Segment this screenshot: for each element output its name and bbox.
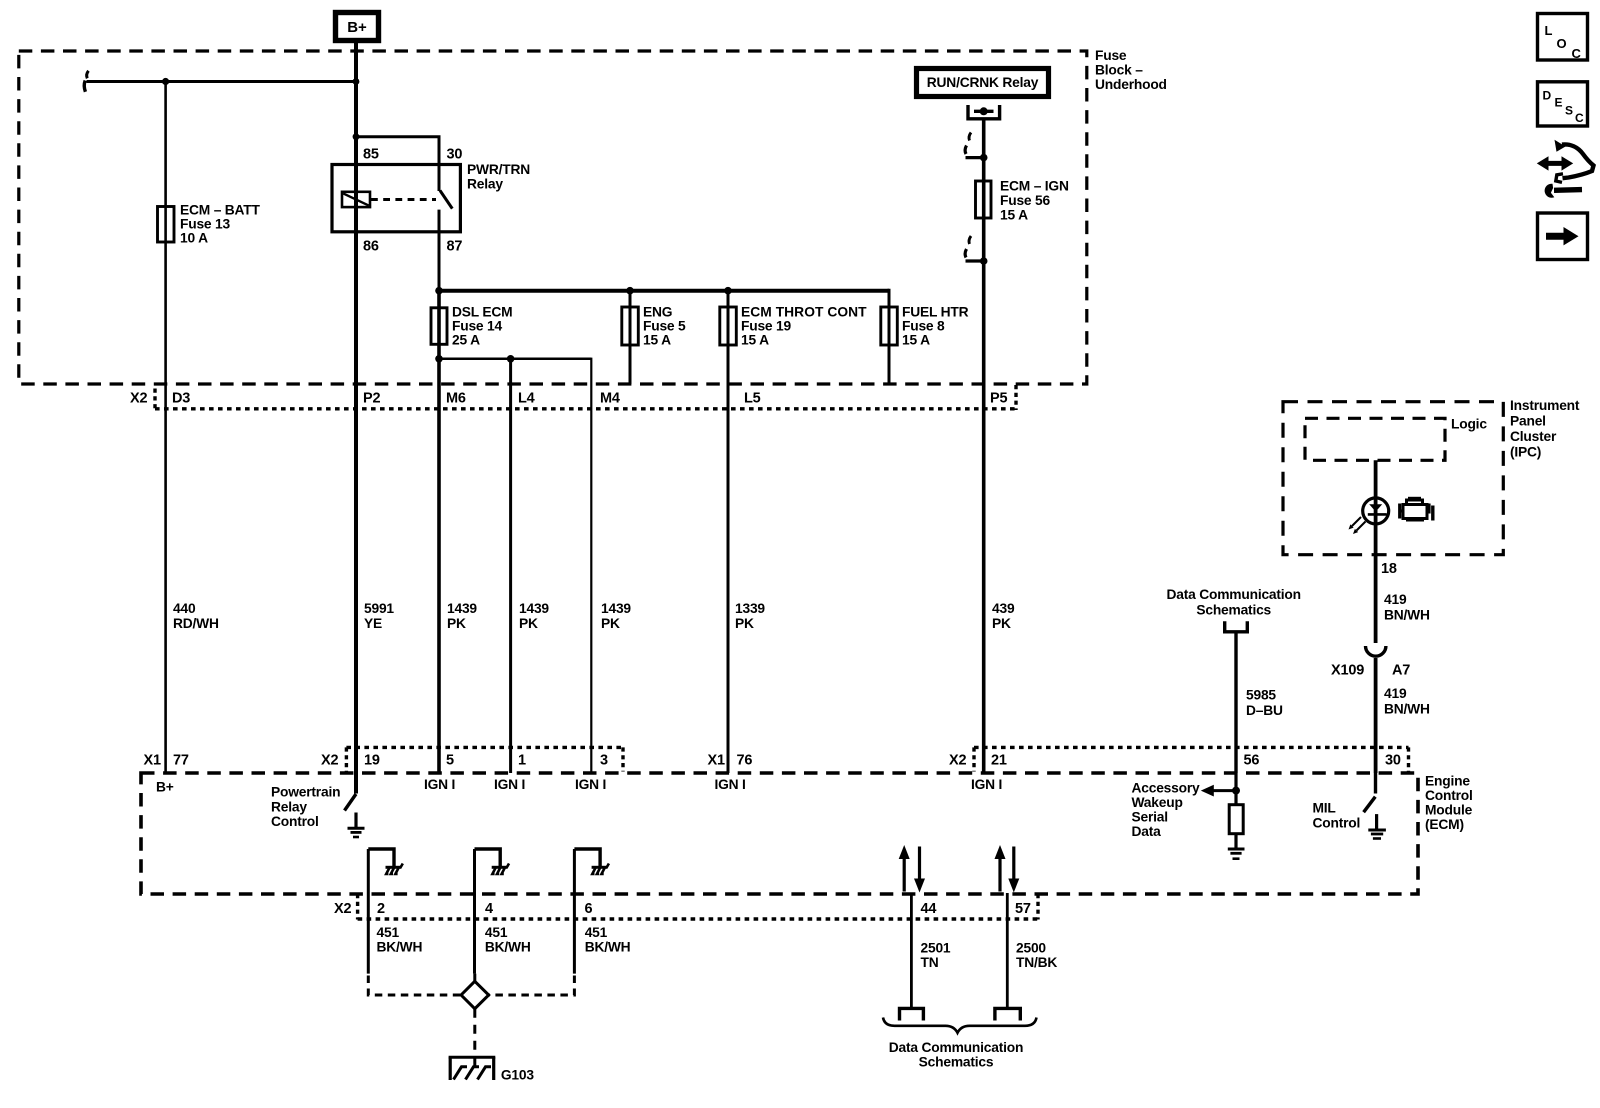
svg-text:Fuse: Fuse xyxy=(1095,48,1127,63)
ground (powertrain control) xyxy=(354,813,357,828)
wire: branch to pins 1 and 3 xyxy=(439,358,591,361)
ECM bottom X2 band (2 4 6 44 57) xyxy=(356,894,359,920)
node: bus junction at 439 xyxy=(435,287,443,295)
svg-text:TN: TN xyxy=(921,955,939,970)
wrench-arrows icon xyxy=(1537,140,1594,198)
svg-text:Schematics: Schematics xyxy=(1196,602,1271,617)
inline connector X109 xyxy=(1366,646,1386,656)
fuse ECM-BATT Fuse 13 xyxy=(158,207,175,243)
wire: pin 87 down to bus xyxy=(438,210,441,291)
node: junction at 1439 pin1 xyxy=(507,355,515,363)
wire 5985 D-BU xyxy=(1234,632,1237,773)
svg-text:FUEL HTR: FUEL HTR xyxy=(902,305,969,320)
svg-text:Data Communication: Data Communication xyxy=(889,1040,1023,1055)
svg-text:ECM – BATT: ECM – BATT xyxy=(180,203,261,218)
svg-text:76: 76 xyxy=(737,753,753,769)
svg-text:Engine: Engine xyxy=(1425,774,1470,789)
svg-text:Fuse 13: Fuse 13 xyxy=(180,217,231,232)
svg-text:PK: PK xyxy=(601,616,620,631)
svg-text:Data: Data xyxy=(1132,824,1162,839)
IPC box xyxy=(1283,402,1503,555)
ground (accessory) xyxy=(1228,848,1245,851)
wire 419 below connector xyxy=(1374,658,1378,773)
svg-text:15 A: 15 A xyxy=(741,333,769,348)
svg-text:439: 439 xyxy=(992,601,1015,616)
wire: RUN/CRNK feed / 439 PK xyxy=(982,119,986,773)
wire 2500 TN/BK xyxy=(1006,893,1009,1008)
svg-text:M4: M4 xyxy=(600,391,620,407)
svg-text:85: 85 xyxy=(363,147,379,163)
svg-text:E: E xyxy=(1555,96,1563,110)
svg-text:BK/WH: BK/WH xyxy=(377,940,423,955)
svg-text:BN/WH: BN/WH xyxy=(1384,608,1430,623)
wire: 1439 PK pin3 drop xyxy=(590,358,592,773)
svg-text:MIL: MIL xyxy=(1313,801,1336,816)
svg-text:19: 19 xyxy=(364,753,380,769)
svg-text:BN/WH: BN/WH xyxy=(1384,702,1430,717)
svg-text:Module: Module xyxy=(1425,803,1473,818)
svg-text:4: 4 xyxy=(485,901,493,917)
relay PWR/TRN box xyxy=(332,165,460,232)
svg-text:5985: 5985 xyxy=(1246,688,1276,703)
connector band fuse block bottom: dotted row xyxy=(155,407,1016,410)
inline connector upper xyxy=(980,154,988,162)
svg-text:1439: 1439 xyxy=(447,601,477,616)
wire: DSL ECM fuse drop / 1439 PK pin5 xyxy=(437,291,441,773)
svg-text:77: 77 xyxy=(173,753,189,769)
node: junction pin85/30 xyxy=(353,133,360,140)
band right terminator xyxy=(1014,385,1017,410)
fuse ECM THROT CONT Fuse 19 xyxy=(720,307,737,345)
svg-text:X2: X2 xyxy=(949,753,966,769)
svg-text:5991: 5991 xyxy=(364,601,394,616)
node: junction top feed xyxy=(162,78,169,85)
svg-text:D: D xyxy=(1543,89,1552,103)
svg-text:Cluster: Cluster xyxy=(1510,429,1557,444)
ground G103 xyxy=(449,1057,535,1083)
svg-text:Control: Control xyxy=(1313,815,1361,830)
svg-text:30: 30 xyxy=(447,147,463,163)
ECM X2 band (21 56 30) xyxy=(974,746,1409,749)
svg-text:18: 18 xyxy=(1381,561,1397,577)
svg-text:D3: D3 xyxy=(172,391,190,407)
RUN/CRNK Relay box xyxy=(917,69,1049,97)
fuse holder clip xyxy=(968,105,1000,119)
fuse DSL ECM Fuse 14 xyxy=(431,308,447,345)
svg-text:Underhood: Underhood xyxy=(1095,77,1167,92)
connector stub left end xyxy=(87,71,89,79)
svg-text:Control: Control xyxy=(1425,788,1473,803)
svg-text:X2: X2 xyxy=(130,391,147,407)
svg-text:Block –: Block – xyxy=(1095,63,1143,78)
svg-text:56: 56 xyxy=(1244,753,1260,769)
svg-text:Fuse 14: Fuse 14 xyxy=(452,319,503,334)
wire: ECM-BATT drop / 440 RD/WH xyxy=(164,82,167,774)
brace xyxy=(883,1018,1037,1033)
svg-text:15 A: 15 A xyxy=(902,333,930,348)
ECM box xyxy=(141,773,1418,894)
node: junction below DSL fuse xyxy=(435,355,443,363)
wire: 1439 PK pin1 drop xyxy=(509,359,512,773)
ground (MIL) xyxy=(1375,814,1378,829)
svg-text:Accessory: Accessory xyxy=(1132,781,1201,796)
svg-text:IGN I: IGN I xyxy=(494,777,525,792)
svg-text:30: 30 xyxy=(1385,753,1401,769)
svg-text:1439: 1439 xyxy=(601,601,631,616)
wire: relay pin 30 feed xyxy=(356,137,439,191)
band separator after X2 xyxy=(153,389,156,411)
wire: feed bus xyxy=(437,289,889,293)
svg-text:Powertrain: Powertrain xyxy=(271,785,340,800)
svg-text:A7: A7 xyxy=(1392,663,1410,679)
engine icon xyxy=(1400,498,1433,521)
node: junction at B+ trunk xyxy=(353,78,360,85)
svg-text:10 A: 10 A xyxy=(180,231,208,246)
svg-text:D–BU: D–BU xyxy=(1246,703,1283,718)
svg-text:PK: PK xyxy=(735,616,754,631)
svg-text:6: 6 xyxy=(585,901,593,917)
svg-text:1439: 1439 xyxy=(519,601,549,616)
svg-text:C: C xyxy=(1575,111,1584,125)
powertrain relay control switch xyxy=(345,794,357,811)
svg-text:PK: PK xyxy=(992,616,1011,631)
svg-text:IGN I: IGN I xyxy=(971,777,1002,792)
svg-text:15 A: 15 A xyxy=(643,333,671,348)
svg-text:C: C xyxy=(1572,46,1582,61)
svg-text:P5: P5 xyxy=(990,391,1007,407)
accessory wakeup node xyxy=(1232,787,1240,795)
svg-text:5: 5 xyxy=(446,753,454,769)
svg-text:21: 21 xyxy=(991,753,1007,769)
svg-text:Fuse 56: Fuse 56 xyxy=(1000,193,1051,208)
logic box xyxy=(1305,418,1445,460)
svg-text:RUN/CRNK Relay: RUN/CRNK Relay xyxy=(927,75,1039,90)
svg-text:Schematics: Schematics xyxy=(919,1055,994,1070)
svg-text:L5: L5 xyxy=(744,391,761,407)
svg-text:Data Communication: Data Communication xyxy=(1167,587,1301,602)
svg-text:(IPC): (IPC) xyxy=(1510,445,1541,460)
svg-text:451: 451 xyxy=(585,925,608,940)
serial data arrows at pin 57 xyxy=(995,845,1020,893)
svg-text:L4: L4 xyxy=(518,391,535,407)
svg-text:Instrument: Instrument xyxy=(1510,398,1580,413)
svg-text:ECM THROT CONT: ECM THROT CONT xyxy=(741,305,867,320)
serial data arrows at pin 44 xyxy=(899,845,925,893)
wire 419 inside IPC xyxy=(1374,460,1378,643)
fuse FUEL HTR Fuse 8 xyxy=(881,307,898,345)
fuse ECM-IGN Fuse 56 xyxy=(976,181,992,218)
ECM X2 band (19 5 1 3) xyxy=(346,746,623,749)
svg-text:Wakeup: Wakeup xyxy=(1132,795,1183,810)
svg-text:(ECM): (ECM) xyxy=(1425,817,1464,832)
svg-text:86: 86 xyxy=(363,239,379,255)
svg-text:419: 419 xyxy=(1384,686,1407,701)
svg-text:451: 451 xyxy=(485,925,508,940)
svg-text:DSL ECM: DSL ECM xyxy=(452,305,512,320)
svg-text:15 A: 15 A xyxy=(1000,208,1028,223)
svg-text:B+: B+ xyxy=(347,19,367,36)
svg-text:PWR/TRN: PWR/TRN xyxy=(467,162,530,177)
svg-text:1: 1 xyxy=(518,753,526,769)
svg-text:3: 3 xyxy=(600,753,608,769)
svg-text:440: 440 xyxy=(173,601,196,616)
svg-text:Panel: Panel xyxy=(1510,414,1546,429)
svg-text:2500: 2500 xyxy=(1016,941,1046,956)
svg-text:YE: YE xyxy=(364,616,382,631)
forward arrow icon xyxy=(1538,213,1588,260)
svg-text:G103: G103 xyxy=(501,1068,534,1083)
wire: ECM THROT CONT fuse drop / 1339 PK xyxy=(727,291,730,773)
DESC icon xyxy=(1538,82,1588,126)
svg-text:S: S xyxy=(1565,104,1573,118)
LOC icon xyxy=(1538,14,1588,62)
svg-text:BK/WH: BK/WH xyxy=(485,940,531,955)
splice diamond xyxy=(368,976,460,996)
off-page terminator 2501 xyxy=(900,1008,924,1020)
svg-text:2501: 2501 xyxy=(921,941,951,956)
node: bus junction at THROT xyxy=(724,287,732,295)
svg-text:25 A: 25 A xyxy=(452,333,480,348)
B+ power symbol xyxy=(336,13,379,41)
svg-text:Fuse 5: Fuse 5 xyxy=(643,319,686,334)
svg-text:BK/WH: BK/WH xyxy=(585,940,631,955)
svg-text:IGN I: IGN I xyxy=(715,777,746,792)
svg-text:X109: X109 xyxy=(1331,663,1364,679)
svg-text:44: 44 xyxy=(921,901,937,917)
svg-text:B+: B+ xyxy=(156,780,174,795)
svg-text:Logic: Logic xyxy=(1451,417,1487,432)
node: bus junction at ENG xyxy=(626,287,634,295)
svg-text:Fuse 8: Fuse 8 xyxy=(902,319,945,334)
wire: top horizontal feed xyxy=(87,80,357,83)
wire 2501 TN xyxy=(910,893,913,1008)
svg-text:P2: P2 xyxy=(363,391,380,407)
svg-text:X1: X1 xyxy=(144,753,161,769)
svg-text:57: 57 xyxy=(1015,901,1031,917)
svg-text:Relay: Relay xyxy=(467,177,503,192)
svg-text:PK: PK xyxy=(519,616,538,631)
svg-text:Fuse 19: Fuse 19 xyxy=(741,319,792,334)
internal ground branch 4 xyxy=(475,849,510,974)
svg-text:RD/WH: RD/WH xyxy=(173,616,219,631)
svg-text:ENG: ENG xyxy=(643,305,672,320)
svg-text:419: 419 xyxy=(1384,592,1407,607)
svg-text:IGN I: IGN I xyxy=(424,777,455,792)
svg-text:X1: X1 xyxy=(708,753,725,769)
svg-text:O: O xyxy=(1557,36,1567,51)
wire: FUEL HTR fuse drop xyxy=(888,289,891,384)
svg-text:ECM – IGN: ECM – IGN xyxy=(1000,179,1069,194)
off-page terminator 5985 xyxy=(1225,621,1248,632)
resistor to ground xyxy=(1234,773,1237,848)
svg-text:Relay: Relay xyxy=(271,799,307,814)
svg-text:TN/BK: TN/BK xyxy=(1016,955,1057,970)
svg-text:X2: X2 xyxy=(334,901,351,917)
relay switch blade xyxy=(440,191,452,209)
svg-text:87: 87 xyxy=(447,239,463,255)
fuse ENG Fuse 5 xyxy=(622,307,639,345)
svg-text:M6: M6 xyxy=(446,391,466,407)
inline connector lower xyxy=(980,257,988,265)
wire: ENG fuse drop xyxy=(629,291,632,384)
relay coil xyxy=(342,192,370,207)
fuse block underhood box xyxy=(19,51,1087,384)
svg-text:PK: PK xyxy=(447,616,466,631)
internal ground branch 6 xyxy=(574,849,609,974)
svg-text:451: 451 xyxy=(377,925,400,940)
svg-text:Serial: Serial xyxy=(1132,810,1168,825)
svg-text:2: 2 xyxy=(377,901,385,917)
svg-text:IGN I: IGN I xyxy=(575,777,606,792)
off-page terminator 2500 xyxy=(995,1008,1020,1020)
wire: B+ vertical trunk (5991 feed) xyxy=(354,43,358,794)
MIL indicator LED xyxy=(1363,498,1389,524)
svg-text:L: L xyxy=(1545,23,1553,38)
svg-text:1339: 1339 xyxy=(735,601,765,616)
relay link dashed xyxy=(371,198,436,201)
internal ground branch 2 xyxy=(368,849,403,974)
svg-text:X2: X2 xyxy=(321,753,338,769)
svg-text:Control: Control xyxy=(271,814,319,829)
